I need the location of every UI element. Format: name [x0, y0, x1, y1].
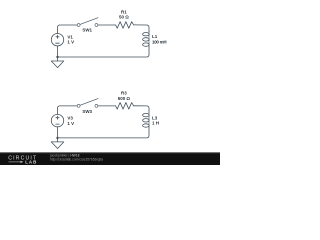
resistor R3 [116, 103, 134, 110]
labels top circuit [67, 9, 166, 44]
switch SW3 [77, 104, 98, 107]
CircuitLab logo [8, 155, 37, 164]
voltage source V3 [51, 114, 63, 126]
svg-text:LAB: LAB [25, 160, 37, 165]
svg-text:R1: R1 [121, 9, 127, 14]
wire V3 bottom to node [57, 127, 59, 138]
ground [51, 57, 64, 68]
wire SW1 to R1 [98, 24, 116, 26]
switch SW1 [77, 24, 98, 27]
wire L3 to bottom node [58, 127, 150, 138]
inductor L1 [148, 32, 150, 47]
voltage source V1 [51, 34, 63, 46]
svg-text:50 Ω: 50 Ω [119, 15, 129, 20]
svg-text:1 V: 1 V [67, 121, 74, 126]
labels bottom circuit [67, 91, 159, 126]
svg-text:500 Ω: 500 Ω [118, 96, 131, 101]
inductor L3 [148, 113, 150, 128]
svg-text:http://circuitlab.com/c/ce357b: http://circuitlab.com/c/ce357b53rq8a [50, 157, 103, 161]
svg-text:1 V: 1 V [67, 39, 74, 44]
footer text [49, 153, 103, 161]
wire R1 to L1 [134, 25, 149, 32]
wire V1 top to switch SW1 [58, 25, 78, 33]
ground [51, 138, 64, 149]
svg-text:SW1: SW1 [82, 28, 92, 33]
wire V3 top to switch SW3 [58, 106, 78, 114]
wire V1 bottom to node [57, 46, 59, 57]
wire SW3 to R3 [98, 105, 116, 107]
svg-text:100 mH: 100 mH [152, 39, 166, 44]
svg-text:R3: R3 [121, 91, 127, 96]
node junction dot (V1- / ground / L1 return) [56, 56, 58, 58]
node junction dot (V3- / ground / L3 return) [56, 137, 58, 139]
svg-text:1 H: 1 H [152, 121, 159, 126]
resistor R1 [116, 22, 134, 29]
wire R3 to L3 [134, 106, 149, 113]
wire L1 to bottom node [58, 46, 150, 57]
svg-text:SW3: SW3 [82, 109, 92, 114]
